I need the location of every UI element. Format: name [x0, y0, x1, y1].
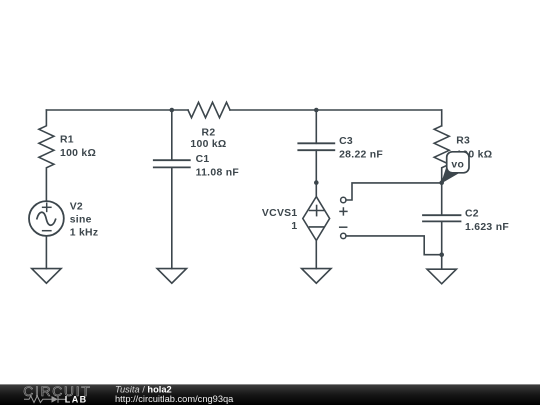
wire node A down to C1	[171, 110, 173, 160]
wire C1 to ground	[171, 167, 173, 268]
svg-text:VCVS1: VCVS1	[262, 208, 298, 219]
svg-text:100 kΩ: 100 kΩ	[60, 148, 96, 159]
svg-text:vo: vo	[451, 160, 464, 171]
footer logo waveform	[24, 396, 66, 403]
source V2	[29, 201, 64, 236]
capacitor C2	[423, 215, 461, 221]
svg-text:100 kΩ: 100 kΩ	[190, 139, 226, 150]
terminal nc- circle	[341, 233, 346, 238]
svg-text:C1: C1	[196, 154, 210, 165]
svg-text:C2: C2	[465, 209, 479, 220]
wire right corner down to R3	[441, 110, 443, 126]
wire node vo down to C2	[441, 183, 443, 216]
svg-text:Tusita / hola2: Tusita / hola2	[115, 385, 172, 395]
svg-text:R2: R2	[202, 127, 216, 138]
node vo junction dot	[439, 180, 444, 185]
wire node B down to C3	[315, 110, 317, 143]
ground G3	[302, 269, 331, 284]
node B junction dot (top middle)	[314, 108, 319, 113]
svg-text:LAB: LAB	[65, 395, 88, 405]
node A junction dot (top left)	[170, 108, 175, 113]
capacitor C1	[154, 160, 190, 167]
svg-text:R3: R3	[456, 135, 470, 146]
ground G4	[427, 269, 456, 284]
node D junction dot	[439, 252, 444, 257]
footer bar	[0, 384, 540, 405]
wire VCVS1 to ground	[315, 241, 317, 269]
svg-text:1 kHz: 1 kHz	[70, 227, 99, 238]
terminal plus sign	[340, 210, 347, 212]
ground G2	[157, 269, 186, 284]
terminal nc+ circle	[341, 197, 346, 202]
svg-text:V2: V2	[70, 202, 83, 213]
wire nc+ to node vo	[346, 183, 442, 200]
wire top rail left segment	[46, 109, 188, 111]
svg-text:http://circuitlab.com/cng93qa: http://circuitlab.com/cng93qa	[115, 394, 234, 404]
dependent source VCVS1	[303, 197, 330, 241]
terminal minus sign	[340, 226, 347, 228]
node vo flag box	[447, 152, 469, 173]
wire C3 to VCVS1	[315, 150, 317, 196]
resistor R1	[39, 110, 54, 201]
wire C2 to bottom node	[441, 221, 443, 269]
svg-text:1: 1	[291, 221, 297, 232]
svg-text:C3: C3	[339, 136, 353, 147]
svg-text:1.623 nF: 1.623 nF	[465, 222, 509, 233]
node C junction dot	[314, 180, 319, 185]
svg-text:28.22 nF: 28.22 nF	[339, 149, 383, 160]
capacitor C3	[298, 143, 334, 150]
ground G1	[32, 269, 61, 284]
resistor R3	[434, 126, 449, 183]
wire top rail middle segment	[230, 109, 442, 111]
wire nc- to bottom node	[346, 236, 442, 255]
svg-text:11.08 nF: 11.08 nF	[196, 168, 239, 179]
resistor R2	[188, 102, 230, 117]
wire V2 to ground	[45, 236, 47, 269]
node vo flag pointer	[442, 167, 458, 183]
svg-text:R1: R1	[60, 135, 74, 146]
svg-text:sine: sine	[70, 214, 92, 225]
